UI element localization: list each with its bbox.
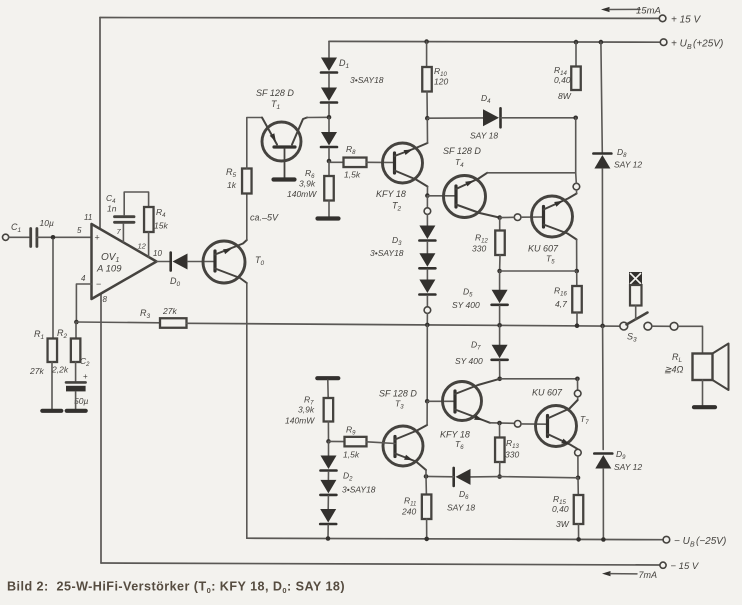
node R14 top [574,40,579,45]
wire T1 collector to D1 column [307,116,329,118]
T2 collector line [395,143,428,156]
label 4.7 R16 [555,299,567,309]
label 330 R12 [472,244,486,254]
T2 base bar [393,153,396,173]
node T7 emitter R15 [576,476,581,481]
label R11 [404,496,416,508]
label R12 [475,233,488,245]
svg-text:2,2k: 2,2k [51,365,69,375]
wire +UB to R10 [426,42,428,67]
label SAY18 D6 [447,503,475,513]
resistor R14 [571,67,581,91]
ground above R7 [317,376,338,380]
label D6 [459,489,469,501]
capacitor C1 [31,229,37,247]
7mA current arrow [602,570,657,580]
wire +UB to D8 [601,42,602,152]
label RL [672,352,683,364]
wire output rail to T6 base node [426,325,428,401]
label 1n [107,204,117,214]
label 3W [556,519,570,529]
wire R14 junction down to T4 collector line [575,118,577,173]
label 140mW R6 [287,189,317,199]
speaker RL box [693,354,713,381]
label pin 8 [103,295,108,304]
ground under R1 [42,409,61,413]
wire T0 collector to -UB rail [246,283,248,538]
wire D2b-D2c [327,496,329,509]
label SAY12 D9 [614,462,642,472]
label 2.2k [51,365,69,375]
wire node to R6 [328,161,330,176]
label SF128D T4 [443,146,481,156]
wire op-amp pin 4 hook [76,284,91,322]
diode D4 [483,108,501,127]
wire R2 to C2 [75,362,77,381]
diode D3c [419,280,435,295]
label R1 [34,329,45,341]
svg-text:1,5k: 1,5k [344,170,361,180]
wire T2 collector up to junction [426,118,428,143]
T7 collector line [548,400,578,419]
T3 emitter line [395,454,426,471]
label D9 [616,449,626,461]
svg-text:SF 128 D: SF 128 D [256,88,294,98]
label S3 [627,332,637,344]
label pin 7 [117,227,122,236]
svg-text:+: + [95,233,100,243]
svg-text:SAY 18: SAY 18 [470,131,498,141]
node R8-R6 [327,159,332,164]
wire D3a-D3b [426,242,428,254]
svg-text:15k: 15k [154,221,168,231]
resistor R4 [144,207,154,232]
wire R12 node to T5 emitter node [500,270,577,272]
wire C4 top to R4 top [124,192,148,215]
wire +UB to D1 [328,41,330,57]
terminal +UB [660,39,667,46]
wire R1 to ground [51,362,53,409]
svg-text:−: − [96,279,101,289]
wire D6 node to R13 node [471,476,500,478]
diode D1a [321,58,337,73]
wire R4 bottom to op-amp pin 12 [148,232,150,257]
resistor R16 [572,286,582,313]
svg-text:B: B [690,542,695,549]
diode D3b [419,253,435,268]
switch S3 middle contact [644,322,652,330]
op-amp + sign [95,233,100,243]
label D5 [463,287,473,299]
wire D2a-D2b [327,472,329,480]
transistor T3 [383,426,423,466]
measure point T7 collector [574,390,581,397]
label pin 5 [77,226,82,235]
wire +UB to R14 [575,42,577,66]
T1 base bar [274,145,295,148]
node E4 [497,215,502,220]
wire speaker to ground [702,380,704,406]
wire T6 base node to T6 [427,400,455,402]
wire -15V bottom rail from op-amp pin 8 [101,563,660,565]
label R2 [57,328,68,340]
svg-text:SAY 12: SAY 12 [614,462,642,472]
svg-text:27k: 27k [29,366,44,376]
wire R13 node down [499,423,501,438]
label T5 [546,254,555,266]
label 3.9k R7 [298,405,315,415]
node D4 line left junction [425,116,430,121]
label 3xSAY18 D1 [350,75,384,85]
resistor R9 [345,437,367,447]
label R4 [156,207,166,219]
T4 collector arrow [465,181,474,187]
svg-text:KU 607: KU 607 [528,244,559,254]
wire junction to D4 [427,117,483,119]
terminal input [3,234,9,240]
label 0.40 R14 [554,75,571,85]
label D4 [481,93,491,105]
wire lamp to lever [635,306,637,320]
wire measure point to T5 base [521,216,544,218]
svg-text:3W: 3W [556,519,570,529]
wire to D3a [426,215,428,226]
svg-text:0,40: 0,40 [552,504,569,514]
wire measure point to T7 collector [577,397,579,400]
diode D8 [593,154,611,169]
diode D0 [171,253,188,271]
resistor R15 [574,495,584,524]
wire ground to R7 [327,380,329,398]
svg-text:11: 11 [84,213,92,222]
wire R15 to -UB rail [578,524,580,539]
transistor T2 [383,143,423,183]
node D8 top [599,40,604,45]
label 120 [434,77,448,87]
T3 emitter arrow [404,455,413,461]
resistor R12 [495,231,505,256]
node R14 bottom junction [573,116,578,121]
svg-text:SF 128 D: SF 128 D [443,146,481,156]
wire R13 node to R15 node [500,477,578,478]
transistor T1 [262,122,301,161]
node D8 output rail [600,324,605,329]
svg-text:140mW: 140mW [287,189,317,199]
T1 base stem [284,149,286,178]
T2 emitter line [395,171,428,187]
svg-text:SY 400: SY 400 [452,300,480,310]
svg-text:KU 607: KU 607 [532,388,563,398]
T1 emitter line [262,118,277,145]
wire D2c to -UB rail [327,525,329,539]
svg-text:SAY 18: SAY 18 [447,503,475,513]
diode D6 [454,468,471,486]
T5 collector arrow [554,201,563,207]
caption Bild 2 [7,580,345,596]
label pin 10 [153,249,162,258]
label C4 [106,193,116,205]
svg-text:SY 400: SY 400 [455,356,483,366]
diode D5 [492,290,508,305]
label R8 [346,144,356,156]
label pin 11 [84,213,92,222]
label 1k [227,180,237,190]
wire node to D5 [499,271,501,290]
wire node to R9 [329,440,345,442]
svg-text:3•SAY18: 3•SAY18 [370,248,404,258]
wire T3 emitter down to node [425,470,427,476]
label 3xSAY18 D3 [370,248,404,258]
label D0 [170,276,181,288]
wire D3 bottom to output rail [426,314,428,325]
svg-text:4: 4 [81,274,86,283]
svg-text:KFY 18: KFY 18 [440,430,470,440]
diode D9 [594,454,612,469]
wire T0 emitter to R5 [246,194,248,241]
wire C2 to ground [75,392,77,410]
wire E4 to measure point [500,216,515,218]
wire R10 to junction [426,92,428,119]
svg-text:A 109: A 109 [96,264,122,275]
measure point D3 bottom [424,307,431,314]
wire D3c to measure point [426,296,428,307]
label -UB (-25V) [674,536,726,549]
resistor R8 [344,158,367,168]
wire +15V top rail from op-amp pin 11 to +15V terminal [100,17,659,20]
resistor R3 [160,318,187,328]
T2 collector arrow [404,150,413,156]
svg-text:ca.–5V: ca.–5V [250,213,279,223]
resistor R6 [324,176,334,201]
transistor T6 [443,382,482,421]
label ca-5V [250,213,279,223]
label SF128D T3 [379,389,417,399]
svg-text:− U: − U [674,536,691,547]
label R7 [304,395,314,407]
node T5 emitter R16 [574,269,579,274]
label 15k [154,221,168,231]
wire node to R1 [52,239,54,339]
node D3 output rail [425,323,430,328]
measure point D3 top [424,208,431,215]
label 140mW R7 [285,416,315,426]
T4 collector line [456,173,487,189]
wire T4 collector line to R14 junction [487,172,576,174]
wire C4 bottom to op-amp pin 7 [122,224,124,243]
label R13 [506,438,519,450]
wire R5 top to T1 emitter [247,118,262,169]
label R3 [140,308,151,320]
label 27k R3 [162,306,177,316]
diode D2c [320,509,336,524]
wire R7 to node [327,422,329,442]
resistor R10 [422,67,432,92]
label >=4 ohm [664,365,684,375]
wire T5 emitter down [576,240,578,272]
wire R15 node to R15 [577,478,579,495]
T5 base bar [542,207,545,228]
T6 emitter arrow [474,415,483,420]
T7 emitter line [548,434,578,449]
node R11 -UB rail [424,537,429,542]
label C1 [11,222,22,234]
switch S3 left contact [620,322,628,330]
wire D5 to output rail [499,306,501,325]
wire D8 to output rail [601,169,603,326]
label R5 [226,167,237,179]
svg-text:8: 8 [103,295,108,304]
svg-text:10µ: 10µ [40,218,54,228]
T7 emitter arrow [561,439,570,445]
T4 base bar [454,186,457,207]
svg-text:(+25V): (+25V) [693,39,723,50]
wire measure point to T5 collector [576,190,578,194]
label R10 [434,66,447,78]
svg-text:3,9k: 3,9k [298,405,315,415]
wire op-amp pin 8 vertical to -15V rail [100,294,102,564]
node R16 output rail [575,323,580,328]
label T7 [580,414,589,426]
op-amp U1 triangle [92,224,157,299]
label 1.5k R8 [344,170,361,180]
T5 collector line [544,194,577,210]
wire D0 to T0 base [188,261,216,263]
wire node A to R3 [76,321,160,324]
svg-text:10: 10 [153,249,162,258]
node R17 bottom junction [575,377,580,382]
node E2 [425,193,430,198]
svg-text:0,40: 0,40 [554,75,571,85]
terminal -15V [660,562,666,568]
label KFY18 T6 [440,430,470,440]
label OV1 [101,252,119,264]
node D9 -UB rail [601,537,606,542]
label 240 [401,507,416,517]
wire T7 emitter measure point down [577,456,579,478]
wire input to C1 [9,236,29,238]
wire E2 down [426,196,428,208]
diode D2a [321,456,337,471]
ground under speaker [694,405,715,409]
label 1.5k R9 [343,450,360,460]
label 10u [40,218,54,228]
svg-text:SAY 12: SAY 12 [614,160,642,170]
label C2 [80,356,90,368]
measure point T7 base [514,421,521,428]
wire R16 to output rail [576,313,578,326]
label pin 4 [81,274,86,283]
wire T3 collector up to T6 base node [426,401,428,425]
label KU607 T7 [532,388,563,398]
label T3 [395,399,404,411]
node T1 collector junction [327,115,332,120]
label 27k R1 [29,366,44,376]
label D7 [471,340,481,352]
T0 emitter line up [215,240,247,255]
svg-text:8W: 8W [558,91,572,101]
node R13 top [497,421,502,426]
node R12 bottom [497,269,502,274]
transistor T0 [203,241,245,283]
node D5 output rail [497,323,502,328]
wire R13 to lower wire [499,462,501,477]
wire output rail to D7 [499,325,501,345]
wire C1 to op-amp pin 5 [37,236,92,238]
svg-text:− 15 V: − 15 V [671,561,700,572]
wire R11 to -UB rail [426,519,428,539]
label D3 [392,235,402,247]
label T2 [392,201,402,213]
label 3.9k R6 [299,179,316,189]
svg-text:1n: 1n [107,204,117,214]
svg-text:12: 12 [138,242,147,251]
label R9 [346,425,356,437]
capacitor C4 [115,217,135,223]
T4 emitter line [456,205,500,218]
wire D9 to -UB rail [602,469,604,540]
wire R6 to ground [328,201,330,218]
label pin 12 [138,242,147,251]
label R15 [553,494,566,506]
svg-text:3•SAY18: 3•SAY18 [342,485,376,495]
T6 collector line [455,379,500,394]
lamp fuse indicator [629,272,642,306]
T3 base bar [393,437,396,457]
node R13 bottom [497,474,502,479]
wire T3 emitter node to R11 [425,476,427,494]
svg-text:330: 330 [472,244,486,254]
wire main output line [187,323,621,326]
wire node A to R2 [75,322,77,339]
wire R17 node down [577,379,579,390]
speaker RL horn [713,344,729,391]
diode D3a [419,226,435,241]
diode D1c [321,132,337,147]
T3 collector line [395,425,427,440]
svg-text:240: 240 [401,507,416,517]
svg-text:3•SAY18: 3•SAY18 [350,75,384,85]
wire node to D2a [328,441,330,455]
svg-text:27k: 27k [162,306,177,316]
T1 collector line [292,118,307,145]
T0 base bar [213,251,216,271]
wire D3b-D3c [426,269,428,279]
wire T3 emitter node to D6 [426,475,454,477]
label 0.40 R15 [552,504,569,514]
wire R8 to T2 base [367,161,395,163]
label A109 [96,264,122,275]
label 330 R13 [505,450,519,460]
label 50u [74,396,88,406]
wire D1b to junction [328,104,330,118]
node D2 -UB rail [326,536,331,541]
15mA current arrow [601,6,661,17]
terminal +15V [659,15,666,22]
T7 base bar [546,416,549,437]
wire junction to D1c [328,117,330,132]
wire S3 right to speaker [678,326,703,353]
node input-R1 junction [51,235,56,240]
label SAY18 D4 [470,131,498,141]
wire R12 to node [499,255,501,271]
label R14 [554,65,567,77]
wire D1c to R6 node [328,148,330,161]
label T1 [271,99,281,111]
transistor T5 [532,196,573,237]
measure point T5 collector [573,183,580,190]
T0 emitter arrow [223,249,232,255]
op-amp - sign [96,279,101,289]
